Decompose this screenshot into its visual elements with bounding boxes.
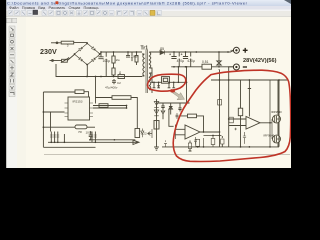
svg-text:IRF9540: IRF9540 (264, 133, 275, 137)
svg-text:100n: 100n (86, 131, 93, 135)
svg-text:0,51: 0,51 (202, 60, 209, 64)
svg-text:470µ: 470µ (187, 59, 195, 63)
svg-text:28V(42V)(56): 28V(42V)(56) (243, 58, 277, 64)
svg-text:470µ: 470µ (177, 59, 185, 63)
svg-text:100µ: 100µ (103, 59, 111, 63)
svg-text:100p: 100p (131, 55, 138, 59)
svg-text:5: 5 (68, 56, 70, 60)
svg-text:Д: Д (119, 70, 121, 74)
svg-text:3: 3 (67, 44, 69, 48)
svg-text:Д5: Д5 (160, 47, 164, 51)
svg-text:C2: C2 (117, 81, 121, 85)
svg-text:IR2153: IR2153 (73, 100, 83, 104)
svg-text:IRF9540: IRF9540 (271, 110, 282, 114)
svg-text:230V: 230V (40, 47, 57, 56)
svg-text:Файл Правка Вид Рисовать: Файл Правка Вид Рисовать Опции Помощь (9, 5, 99, 10)
svg-text:0,22: 0,22 (141, 132, 147, 136)
svg-text:Tr1: Tr1 (141, 46, 149, 52)
svg-text:47µ/400v: 47µ/400v (105, 85, 118, 89)
